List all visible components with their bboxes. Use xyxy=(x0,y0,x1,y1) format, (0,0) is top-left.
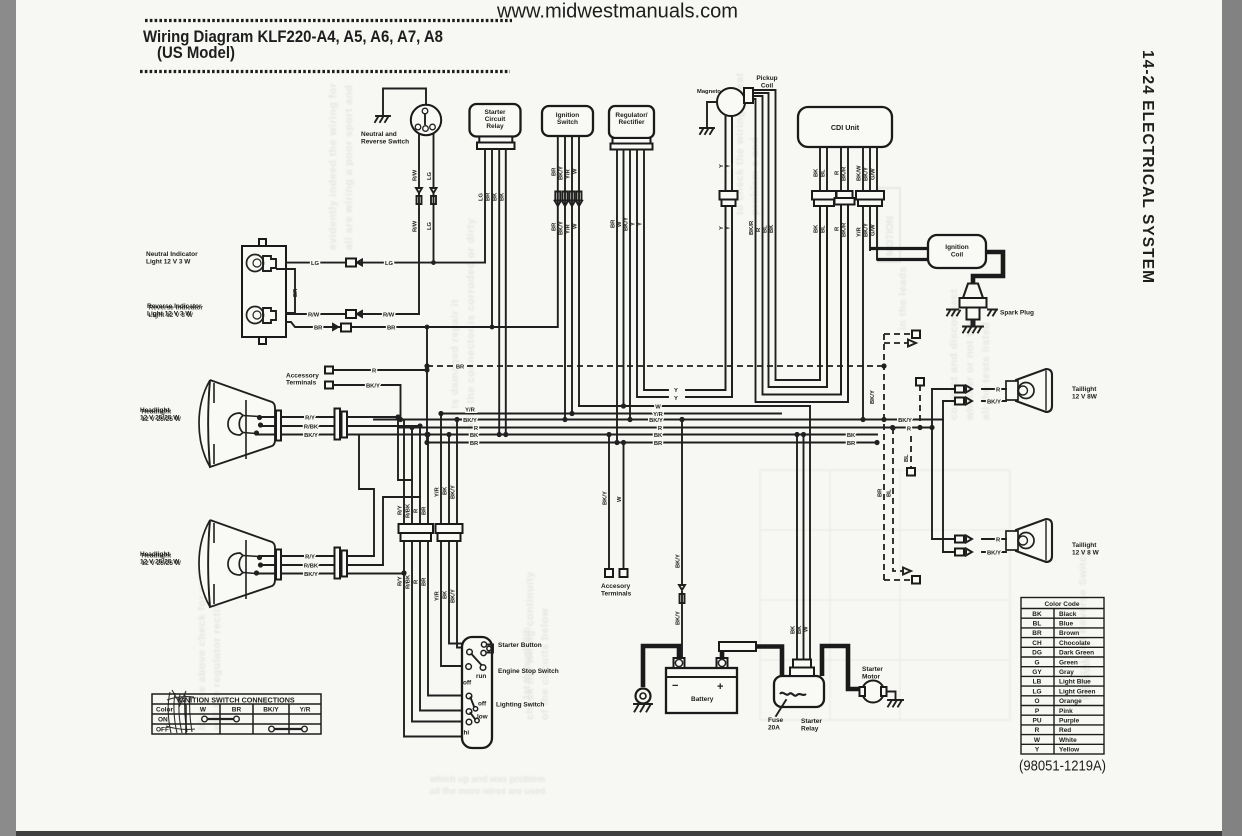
svg-text:Switch: Switch xyxy=(557,119,578,126)
svg-text:Coil: Coil xyxy=(951,252,963,259)
svg-text:Engine Stop Switch: Engine Stop Switch xyxy=(498,668,559,675)
svg-text:Light Green: Light Green xyxy=(1059,688,1096,695)
svg-text:BK/Y: BK/Y xyxy=(451,589,457,603)
svg-text:W: W xyxy=(573,168,579,174)
svg-text:R/Y: R/Y xyxy=(398,576,404,586)
svg-text:Color Code: Color Code xyxy=(1044,601,1079,608)
svg-text:R/BK: R/BK xyxy=(304,425,319,431)
svg-text:Brown: Brown xyxy=(1059,630,1079,637)
svg-text:Y: Y xyxy=(726,226,732,230)
svg-text:Starter Button: Starter Button xyxy=(498,642,542,649)
svg-text:BK/Y: BK/Y xyxy=(870,390,876,404)
svg-text:BK: BK xyxy=(1032,611,1042,618)
svg-text:BK/Y: BK/Y xyxy=(263,707,279,714)
svg-text:Magneto: Magneto xyxy=(697,89,721,95)
svg-text:Purple: Purple xyxy=(1059,718,1080,725)
svg-text:BR: BR xyxy=(847,441,856,447)
svg-text:BL: BL xyxy=(1033,621,1042,628)
svg-text:BK/Y: BK/Y xyxy=(624,217,630,231)
svg-text:BK/Y: BK/Y xyxy=(559,221,565,235)
svg-text:LG: LG xyxy=(311,261,320,267)
svg-text:LG: LG xyxy=(427,171,433,180)
svg-text:BK: BK xyxy=(847,433,856,439)
svg-text:BK: BK xyxy=(499,192,505,201)
svg-text:Y/R: Y/R xyxy=(566,224,572,234)
svg-text:12 V 25/25 W: 12 V 25/25 W xyxy=(142,560,182,567)
svg-text:Starter: Starter xyxy=(862,666,883,673)
svg-text:BK/Y: BK/Y xyxy=(898,418,912,424)
svg-text:W: W xyxy=(655,405,661,411)
svg-text:off: off xyxy=(478,701,487,708)
svg-text:low: low xyxy=(477,714,488,721)
svg-text:White: White xyxy=(1059,737,1077,744)
svg-text:BK/Y: BK/Y xyxy=(676,554,682,568)
svg-text:O: O xyxy=(1034,698,1039,705)
svg-text:Taillight: Taillight xyxy=(1072,542,1097,549)
svg-text:Pickup: Pickup xyxy=(756,75,777,82)
svg-text:Motor: Motor xyxy=(862,674,881,681)
svg-text:G/W: G/W xyxy=(871,224,877,236)
svg-text:Terminals: Terminals xyxy=(286,380,317,387)
svg-text:hi: hi xyxy=(464,730,470,737)
svg-text:W: W xyxy=(573,223,579,229)
svg-text:DG: DG xyxy=(1032,650,1042,657)
svg-text:Regulator/: Regulator/ xyxy=(615,112,647,119)
svg-text:Blue: Blue xyxy=(1059,621,1073,628)
svg-text:ON: ON xyxy=(158,717,168,724)
svg-text:Light 12 V 3 W: Light 12 V 3 W xyxy=(149,312,194,319)
svg-text:20A: 20A xyxy=(768,725,780,732)
svg-text:Y/R: Y/R xyxy=(857,227,863,237)
svg-text:BR: BR xyxy=(611,219,617,228)
svg-text:PU: PU xyxy=(1032,718,1041,725)
svg-text:W: W xyxy=(617,496,623,502)
svg-text:BK/Y: BK/Y xyxy=(987,400,1001,406)
svg-text:Neutral and: Neutral and xyxy=(361,131,397,138)
svg-text:will the regulator rectifier: will the regulator rectifier xyxy=(211,591,223,731)
svg-text:Y: Y xyxy=(719,164,725,168)
svg-text:Battery: Battery xyxy=(691,696,714,703)
svg-text:Spark Plug: Spark Plug xyxy=(1000,310,1034,317)
svg-text:R/W: R/W xyxy=(383,312,395,318)
svg-text:(US Model): (US Model) xyxy=(157,44,235,62)
svg-text:Starter: Starter xyxy=(485,109,506,116)
svg-text:Lighting Switch: Lighting Switch xyxy=(496,702,544,709)
svg-text:Circuit: Circuit xyxy=(485,116,506,123)
svg-text:Ignition: Ignition xyxy=(945,244,968,251)
svg-text:P: P xyxy=(1035,708,1040,715)
svg-text:BK/Y: BK/Y xyxy=(864,223,870,237)
svg-text:BK: BK xyxy=(654,433,663,439)
svg-text:Accessory: Accessory xyxy=(286,373,319,380)
svg-text:BK/Y: BK/Y xyxy=(451,485,457,499)
svg-text:OFF: OFF xyxy=(156,727,169,734)
svg-text:CH: CH xyxy=(1032,640,1042,647)
svg-text:all are wiring a poor sport an: all are wiring a poor sport and xyxy=(343,85,355,250)
svg-text:Green: Green xyxy=(1059,659,1078,666)
svg-text:BK: BK xyxy=(493,192,499,201)
svg-text:LG: LG xyxy=(427,221,433,230)
svg-text:Y: Y xyxy=(631,222,637,226)
svg-text:R/Y: R/Y xyxy=(305,555,315,561)
svg-text:BR: BR xyxy=(387,325,396,331)
svg-text:−: − xyxy=(672,680,678,692)
svg-text:Dark Green: Dark Green xyxy=(1059,650,1094,657)
svg-text:Relay: Relay xyxy=(801,726,819,733)
svg-text:Neutral Indicator: Neutral Indicator xyxy=(146,251,198,258)
svg-text:Rectifier: Rectifier xyxy=(618,119,644,126)
svg-text:+: + xyxy=(717,681,723,693)
svg-text:BK/Y: BK/Y xyxy=(304,572,318,578)
svg-text:in the leads: in the leads xyxy=(897,266,909,330)
svg-text:14-24 ELECTRICAL SYSTEM: 14-24 ELECTRICAL SYSTEM xyxy=(1139,50,1156,283)
svg-text:Y/R: Y/R xyxy=(435,591,441,601)
svg-text:LB: LB xyxy=(1033,679,1042,686)
svg-text:Terminals: Terminals xyxy=(601,591,632,598)
svg-text:BK/Y: BK/Y xyxy=(603,491,609,505)
svg-text:(98051-1219A): (98051-1219A) xyxy=(1019,759,1106,775)
svg-text:12 V 8 W: 12 V 8 W xyxy=(1072,550,1100,557)
svg-text:R/Y: R/Y xyxy=(398,505,404,515)
svg-text:R/Y: R/Y xyxy=(305,416,315,422)
svg-text:R: R xyxy=(1035,727,1040,734)
svg-text:BK/Y: BK/Y xyxy=(463,418,477,424)
svg-text:BR: BR xyxy=(551,222,557,231)
svg-text:Starter: Starter xyxy=(801,718,822,725)
svg-text:BK: BK xyxy=(814,224,820,233)
svg-text:BK/Y: BK/Y xyxy=(649,418,663,424)
svg-text:BR: BR xyxy=(456,365,465,371)
svg-text:BK: BK xyxy=(797,625,803,634)
svg-text:Y: Y xyxy=(674,396,678,402)
svg-text:12 V 8W: 12 V 8W xyxy=(1072,394,1098,401)
svg-text:BR: BR xyxy=(1032,630,1042,637)
svg-text:BR: BR xyxy=(422,577,428,586)
svg-text:BK/R: BK/R xyxy=(842,166,848,181)
svg-text:BK: BK xyxy=(791,625,797,634)
svg-text:BR: BR xyxy=(486,192,492,201)
svg-text:all the more wires are used: all the more wires are used xyxy=(430,786,546,796)
svg-text:LG: LG xyxy=(385,261,394,267)
svg-text:BL: BL xyxy=(821,225,827,233)
svg-text:BL: BL xyxy=(821,169,827,177)
svg-text:Y: Y xyxy=(1035,747,1040,754)
svg-text:12 V 25/25 W: 12 V 25/25 W xyxy=(142,416,182,423)
svg-text:R/W: R/W xyxy=(413,169,419,181)
svg-text:Coil: Coil xyxy=(761,83,773,90)
svg-text:Y: Y xyxy=(719,226,725,230)
svg-text:W: W xyxy=(617,221,623,227)
svg-text:BR: BR xyxy=(551,167,557,176)
svg-text:BK: BK xyxy=(443,590,449,599)
svg-text:Fuse: Fuse xyxy=(768,717,784,724)
svg-text:BK/Y: BK/Y xyxy=(676,611,682,625)
svg-text:Y/R: Y/R xyxy=(465,408,475,414)
svg-text:Reverse Switch: Reverse Switch xyxy=(361,139,409,146)
svg-text:Ignition: Ignition xyxy=(556,112,579,119)
svg-text:BR: BR xyxy=(293,288,299,297)
svg-text:R/BK: R/BK xyxy=(406,503,412,518)
svg-text:Orange: Orange xyxy=(1059,698,1082,705)
svg-text:1st through 5th: 1st through 5th xyxy=(522,627,533,700)
svg-text:Y/R: Y/R xyxy=(566,169,572,179)
svg-text:BK: BK xyxy=(470,433,479,439)
svg-text:BR: BR xyxy=(654,441,663,447)
svg-text:Y/R: Y/R xyxy=(300,707,311,714)
svg-text:run: run xyxy=(476,673,486,680)
svg-text:BR: BR xyxy=(232,707,242,714)
svg-text:W: W xyxy=(804,626,810,632)
svg-text:Color: Color xyxy=(156,707,173,714)
svg-text:LG: LG xyxy=(479,192,485,201)
svg-text:BK/Y: BK/Y xyxy=(864,167,870,181)
svg-text:Black: Black xyxy=(1059,611,1077,618)
svg-text:Y: Y xyxy=(674,388,678,394)
svg-text:evidently indeed the wiring fo: evidently indeed the wiring for xyxy=(327,83,339,250)
svg-text:BR: BR xyxy=(314,325,323,331)
svg-text:G/W: G/W xyxy=(871,168,877,180)
svg-text:BL: BL xyxy=(762,225,768,233)
svg-text:W: W xyxy=(200,707,207,714)
svg-text:BK/Y: BK/Y xyxy=(366,384,380,390)
svg-text:BK/R: BK/R xyxy=(749,220,755,235)
svg-text:R/BK: R/BK xyxy=(304,564,319,570)
svg-text:BK/Y: BK/Y xyxy=(304,433,318,439)
svg-text:with the connector is corroded: with the connector is corroded or dirty xyxy=(465,218,477,431)
svg-text:BL: BL xyxy=(887,489,893,497)
svg-text:Y: Y xyxy=(638,222,644,226)
svg-text:BK/W: BK/W xyxy=(857,165,863,181)
svg-text:GY: GY xyxy=(1032,669,1042,676)
svg-text:BR: BR xyxy=(878,488,884,497)
svg-text:Gray: Gray xyxy=(1059,669,1074,676)
svg-text:BL: BL xyxy=(904,454,910,462)
svg-text:Light 12 V 3 W: Light 12 V 3 W xyxy=(146,259,191,266)
svg-text:Light Blue: Light Blue xyxy=(1059,679,1091,686)
svg-text:BK: BK xyxy=(814,168,820,177)
svg-text:Taillight: Taillight xyxy=(1072,386,1097,393)
svg-text:BK/Y: BK/Y xyxy=(987,551,1001,557)
svg-text:IGNITION SWITCH CONNECTIONS: IGNITION SWITCH CONNECTIONS xyxy=(177,696,295,705)
svg-text:Pink: Pink xyxy=(1059,708,1073,715)
svg-text:Y/R: Y/R xyxy=(435,487,441,497)
svg-text:BK/R: BK/R xyxy=(842,222,848,237)
svg-text:www.midwestmanuals.com: www.midwestmanuals.com xyxy=(496,0,738,23)
svg-text:BK: BK xyxy=(769,224,775,233)
svg-text:R/BK: R/BK xyxy=(406,574,412,589)
svg-text:BK/Y: BK/Y xyxy=(559,166,565,180)
svg-text:BR: BR xyxy=(422,506,428,515)
svg-text:Chocolate: Chocolate xyxy=(1059,640,1091,647)
svg-text:Red: Red xyxy=(1059,727,1071,734)
svg-text:LG: LG xyxy=(1032,688,1041,695)
svg-text:Y: Y xyxy=(726,164,732,168)
svg-text:BK: BK xyxy=(443,486,449,495)
svg-text:G: G xyxy=(1034,659,1039,666)
svg-text:R/W: R/W xyxy=(308,312,320,318)
svg-text:BR: BR xyxy=(470,441,479,447)
svg-text:Accesory: Accesory xyxy=(601,583,631,590)
svg-text:R/W: R/W xyxy=(413,220,419,232)
svg-text:whether or not the: whether or not the xyxy=(964,319,976,421)
svg-text:which up and was problem: which up and was problem xyxy=(429,774,545,784)
svg-text:Yellow: Yellow xyxy=(1059,747,1080,754)
svg-text:W: W xyxy=(1034,737,1041,744)
svg-text:Relay: Relay xyxy=(486,123,504,130)
svg-text:off: off xyxy=(463,680,472,687)
svg-text:CDI Unit: CDI Unit xyxy=(831,123,860,132)
